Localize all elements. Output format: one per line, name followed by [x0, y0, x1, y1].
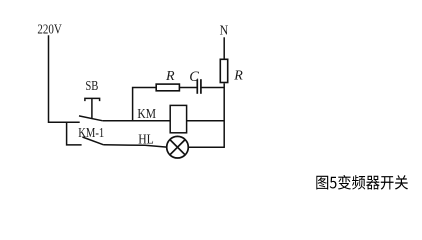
- svg-text:KM-1: KM-1: [78, 126, 104, 141]
- svg-text:N: N: [220, 24, 229, 39]
- 器: [366, 176, 379, 190]
- coil KM: [170, 105, 186, 132]
- wire branch up to RC row: [133, 88, 156, 121]
- capacitor C: [197, 79, 201, 94]
- svg-text:KM: KM: [137, 107, 156, 122]
- 5: [330, 177, 337, 189]
- label HL: [138, 132, 154, 147]
- node 220V: [37, 22, 62, 37]
- wire right rail: [223, 83, 225, 148]
- svg-text:SB: SB: [85, 79, 98, 94]
- wire N lead: [223, 37, 225, 58]
- contact KM-1 blade: [82, 137, 103, 145]
- wire R to C: [180, 87, 197, 89]
- wire HL row: [104, 145, 167, 147]
- pushbutton SB: [79, 98, 103, 120]
- label SB: [85, 79, 98, 94]
- resistor R (dropper): [220, 59, 227, 82]
- svg-text:C: C: [189, 69, 199, 85]
- 频: [352, 175, 365, 189]
- caption 图5变频器开关: [316, 175, 408, 190]
- wire C to right rail: [202, 87, 225, 89]
- resistor R (series RC): [156, 84, 179, 91]
- 开: [381, 176, 394, 190]
- wire KM row: [103, 120, 170, 122]
- node N: [220, 24, 229, 39]
- wire lamp to right rail: [188, 146, 224, 148]
- node junction KM-1 tap: [67, 122, 82, 145]
- 图: [316, 176, 328, 190]
- svg-text:R: R: [165, 69, 175, 84]
- label KM-1: [78, 126, 104, 141]
- label KM: [137, 107, 156, 122]
- wire coil to right rail: [187, 120, 225, 122]
- label C italic: [189, 69, 199, 85]
- lamp HL: [167, 136, 189, 158]
- svg-text:R: R: [233, 68, 243, 83]
- 关: [395, 175, 408, 189]
- label R italic: [165, 69, 175, 84]
- wire L phase rail: [49, 35, 80, 122]
- svg-text:220V: 220V: [37, 22, 62, 37]
- 变: [338, 175, 351, 190]
- label R italic right: [233, 68, 243, 83]
